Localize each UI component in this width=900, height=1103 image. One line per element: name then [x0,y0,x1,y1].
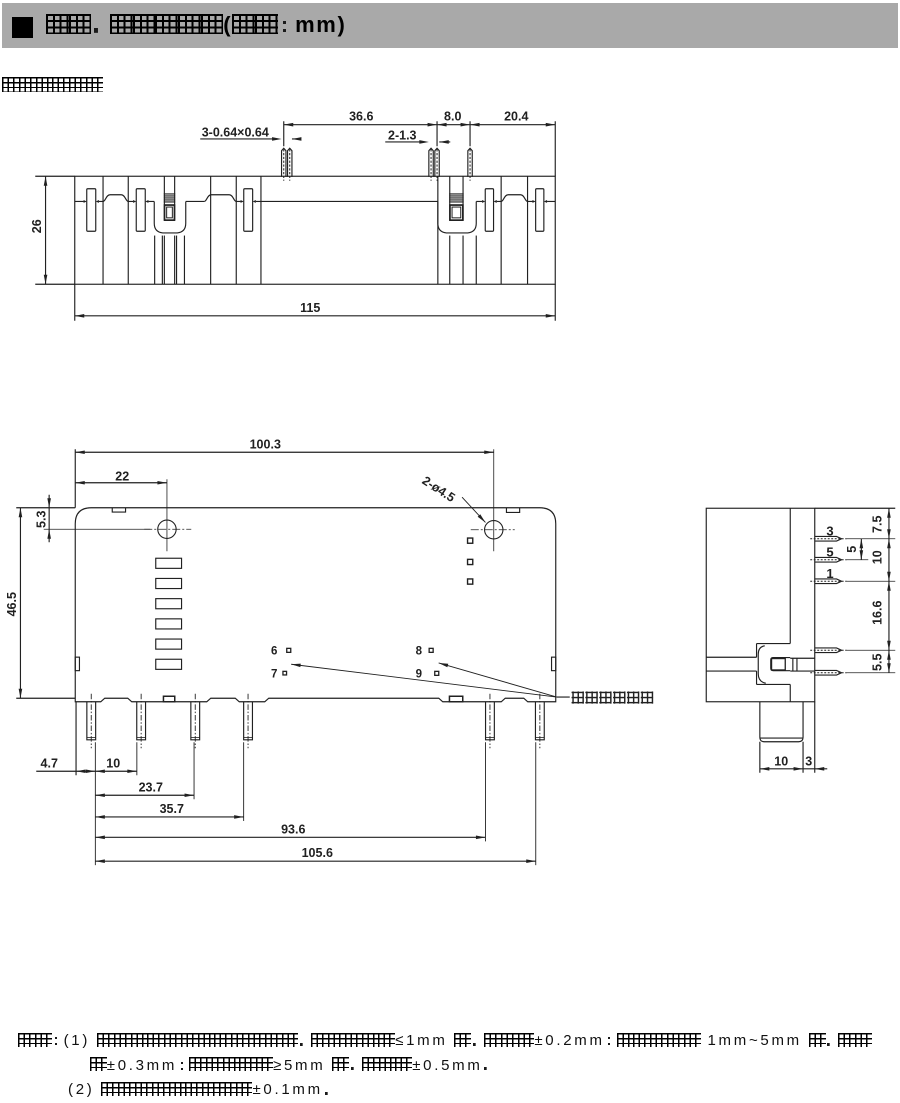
aux contact squares 6/7/8/9 [287,648,291,652]
svg-text:3: 3 [826,524,833,539]
top view division line [437,176,439,284]
svg-text:5: 5 [826,545,833,560]
top view U pocket [154,201,186,233]
mounting clip [756,644,758,658]
svg-text:10: 10 [106,756,120,770]
top view body outline [75,176,556,284]
top view slot [485,189,493,232]
dim 5.3 [16,507,75,509]
svg-text:26: 26 [30,219,44,233]
pin [486,702,495,740]
svg-text:6: 6 [271,646,277,658]
front view side tab left [75,657,79,671]
top view division line [527,176,529,284]
svg-text:8: 8 [416,646,423,658]
top view U pocket legs [449,236,451,285]
top view solder pin [288,148,292,177]
dim 16.6 [888,581,890,650]
top view slot [87,189,96,232]
label fuzhu chudian xuanpei (aux contact option) [572,691,584,703]
front view side tab right [552,657,556,671]
top view slot [536,189,544,232]
svg-text:3: 3 [805,754,812,768]
top view inner horizontal edge [75,200,84,202]
side pin [815,648,842,653]
side pin [815,579,842,584]
dim 35.7 [95,816,243,818]
dim 5.5 [888,650,890,673]
notes 备注 [18,1029,872,1103]
vent slots [156,558,182,568]
top view division line [127,176,129,284]
clip latch [772,659,786,670]
aux contact leader arrows [291,664,557,697]
dim 5 (inner) [860,539,862,560]
side view body [706,508,815,702]
top view U pocket [438,201,476,233]
pin [87,702,96,740]
side pin [815,670,842,675]
svg-text:8.0: 8.0 [444,109,461,123]
dim 26 (left) [35,175,75,177]
top view solder pin [429,148,433,177]
svg-text:4.7: 4.7 [41,756,58,770]
top view division line [235,176,237,284]
dim 115 (bottom) [74,284,76,321]
front view top notch left [112,508,125,512]
svg-text:5.5: 5.5 [871,654,885,671]
svg-text:10: 10 [774,754,788,768]
svg-text:105.6: 105.6 [302,846,333,860]
svg-text:93.6: 93.6 [281,822,305,836]
pin [191,702,200,740]
dim 10 [888,539,890,582]
top view elevated edge [501,195,527,202]
bottom dims extensions [75,702,77,776]
mounting hole left [158,520,176,538]
dim 93.6 [95,836,485,838]
svg-text:100.3: 100.3 [250,437,281,451]
svg-text:22: 22 [115,469,129,483]
svg-text:5: 5 [845,546,859,553]
dim 23.7 [95,794,194,796]
svg-text:1: 1 [826,566,833,581]
side pin [815,557,842,562]
indicator squares column [468,538,473,543]
top view solder pin [282,148,286,177]
side dims right [815,507,896,509]
svg-text:5.3: 5.3 [34,511,48,528]
side view inner vertical line [789,508,791,643]
svg-text:2-ø4.5: 2-ø4.5 [420,474,458,505]
top view elevated edge [103,195,128,202]
top view solder pin [435,148,439,177]
dim 7.5 [888,508,890,539]
svg-text:2-1.3: 2-1.3 [388,128,417,142]
svg-text:23.7: 23.7 [139,780,163,794]
pin [244,702,253,740]
front view body outline [75,508,556,702]
top view slot [244,189,253,232]
front view top notch right [506,508,519,513]
dim 46.5 [16,697,75,699]
dim 105.6 [95,860,535,862]
svg-text:20.4: 20.4 [504,109,528,123]
top view slot [136,189,145,232]
svg-text:46.5: 46.5 [5,592,19,616]
top view division line [500,176,502,284]
side pin [815,536,842,541]
dim 22 [166,479,168,551]
side channel lines [706,656,756,658]
top view U pocket legs [154,236,156,285]
svg-text:16.6: 16.6 [871,601,885,625]
pin [535,702,544,740]
mounting hole right [485,521,503,539]
top view elevated edge [204,195,236,202]
bottom feet [163,696,174,702]
svg-text:7.5: 7.5 [871,516,885,533]
svg-text:10: 10 [871,550,885,564]
top view division line [260,176,262,284]
subtitle 标准型外形图 [2,77,103,95]
svg-text:35.7: 35.7 [160,802,184,816]
svg-text:9: 9 [416,669,422,681]
header bar [2,3,898,48]
top view solder pin [468,148,472,177]
dim 4.7 and 10 [36,770,95,772]
bottom stub [760,702,803,742]
side bottom dims 10 and 3 [759,742,761,773]
top view division line [102,176,104,284]
pin [137,702,146,740]
svg-text:3-0.64×0.64: 3-0.64×0.64 [202,125,269,139]
svg-text:7: 7 [271,669,277,681]
svg-text:36.6: 36.6 [349,109,373,123]
dim 100.3 [74,449,76,508]
top view division line [210,176,212,284]
dim 36.6 / 8.0 / 20.4 [283,121,285,146]
svg-text:115: 115 [300,301,320,315]
